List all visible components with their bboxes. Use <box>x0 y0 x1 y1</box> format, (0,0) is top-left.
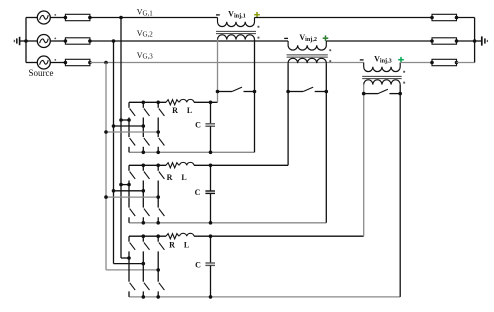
wire rail to transformer 1 <box>194 101 218 103</box>
load box 3 <box>432 59 457 65</box>
switch leg 1 of VSC1 <box>128 102 130 108</box>
wire phase 2 to load <box>326 40 432 42</box>
wire rail to transformer 2 <box>194 164 288 166</box>
wire T3 primary left lead <box>363 85 365 237</box>
switch leg 3 of VSC2 <box>157 165 159 171</box>
transformer T3 primary winding <box>364 80 401 85</box>
wire source 2 to impedance <box>50 40 65 42</box>
switch leg 3 of VSC3 <box>157 236 159 242</box>
switch leg 3 of VSC1 <box>157 102 159 108</box>
source impedance box Z2 <box>65 38 90 44</box>
transformer T3 secondary winding <box>364 63 401 72</box>
wire rail to transformer 3 <box>194 235 364 237</box>
polarity dot T2 secondary <box>329 49 331 51</box>
node N common <box>25 18 27 63</box>
wire bus B (phase2 drop) <box>113 41 115 264</box>
wire bus C (phase3 drop) <box>105 63 107 270</box>
wire source 1 to impedance <box>50 17 65 19</box>
node tap phase3 <box>104 61 108 65</box>
wire midpoint tap leg3 VSC1 <box>106 131 158 133</box>
label minus T2 <box>284 37 288 39</box>
AC source Vs3 <box>26 62 37 64</box>
label plus T1 <box>254 14 260 16</box>
transformer T2 secondary winding <box>288 41 326 50</box>
AC source Vs2 <box>26 40 37 42</box>
svg-text:VG,2: VG,2 <box>137 29 154 39</box>
resistor R (VSC2 filter) <box>166 163 179 168</box>
wire load 3 to right bus <box>457 62 475 64</box>
capacitor C (VSC2) <box>210 165 212 191</box>
load box 2 <box>432 38 457 44</box>
inductor L (VSC3 filter) <box>180 233 195 236</box>
switch leg 1 of VSC3 <box>128 236 130 242</box>
switch leg 2 of VSC3 <box>142 236 144 242</box>
switch leg 1 of VSC2 <box>128 165 130 171</box>
switch leg 2 of VSC2 <box>142 165 144 171</box>
label plus T3 <box>398 59 404 61</box>
wire phase 3 to load <box>400 62 432 64</box>
polarity dot T3 primary <box>403 82 405 84</box>
svg-text:R: R <box>169 241 175 250</box>
capacitor C (VSC1) <box>210 102 212 124</box>
inductor L (VSC1 filter) <box>180 99 195 102</box>
svg-text:VG,1: VG,1 <box>137 7 154 17</box>
transformer T3 core <box>362 75 402 77</box>
converter VSC3 top rail <box>129 235 166 237</box>
ground right <box>475 40 482 42</box>
source impedance box Z1 <box>65 14 90 20</box>
node right bus <box>474 18 476 63</box>
wire T1 primary left lead <box>217 40 219 103</box>
polarity dot T1 secondary <box>258 26 260 28</box>
converter VSC1 bottom rail <box>129 151 255 153</box>
label plus T2 <box>323 37 329 39</box>
resistor R (VSC3 filter) <box>166 234 179 239</box>
wire T3 primary right lead <box>399 85 401 297</box>
svg-text:Source: Source <box>29 68 54 78</box>
label minus T3 <box>360 59 364 61</box>
converter VSC2 bottom rail <box>129 222 326 224</box>
node tap phase1 <box>119 16 123 20</box>
capacitor C (VSC3) <box>210 236 212 263</box>
svg-text:L: L <box>181 173 186 182</box>
polarity dot T1 primary <box>258 37 260 39</box>
wire midpoint tap leg1 VSC2 <box>121 184 129 186</box>
bypass switch S1 <box>218 91 233 93</box>
polarity dot T2 primary <box>329 60 331 62</box>
wire midpoint tap leg2 VSC1 <box>114 125 144 127</box>
load box 1 <box>432 14 457 20</box>
transformer T2 primary winding <box>288 58 326 63</box>
converter VSC2 top rail <box>129 164 166 166</box>
transformer T1 primary winding <box>218 35 255 40</box>
bypass switch S3 <box>364 93 378 95</box>
wire midpoint tap leg3 VSC2 <box>106 196 158 198</box>
polarity dot T3 secondary <box>403 71 405 73</box>
ground <box>20 40 26 42</box>
svg-text:R: R <box>172 106 178 115</box>
converter VSC1 top rail <box>129 101 166 103</box>
svg-text:R: R <box>167 173 173 182</box>
svg-text:C: C <box>195 260 201 269</box>
source impedance box Z3 <box>65 59 90 65</box>
wire load 2 to right bus <box>457 40 475 42</box>
wire T2 primary left lead <box>287 63 289 165</box>
wire midpoint tap leg2 VSC2 <box>114 190 144 192</box>
transformer T1 core <box>216 30 256 32</box>
switch leg 2 of VSC1 <box>142 102 144 108</box>
svg-text:C: C <box>195 188 201 197</box>
converter VSC3 bottom rail <box>129 296 400 298</box>
wire VG,3 feeder <box>90 62 364 64</box>
svg-text:C: C <box>195 120 201 129</box>
wire bus A (phase1 drop) <box>120 18 122 259</box>
AC source Vs1 <box>26 17 37 19</box>
wire T2 primary right lead <box>325 63 327 223</box>
wire midpoint tap leg1 VSC1 <box>121 119 129 121</box>
wire phase 1 to load <box>255 17 433 19</box>
node tap phase2 <box>112 39 116 43</box>
transformer T2 core <box>287 54 328 56</box>
wire VG,1 feeder <box>90 17 218 19</box>
svg-text:VG,3: VG,3 <box>137 51 154 61</box>
wire VG,2 feeder <box>90 40 288 42</box>
wire T1 primary right lead <box>254 40 256 153</box>
resistor R (VSC1 filter) <box>166 100 179 105</box>
bypass switch S2 <box>288 91 303 93</box>
svg-text:L: L <box>187 106 192 115</box>
label minus T1 <box>216 14 220 16</box>
transformer T1 secondary winding <box>218 18 255 27</box>
inductor L (VSC2 filter) <box>180 162 195 165</box>
svg-text:L: L <box>184 241 189 250</box>
wire load 1 to right bus <box>457 17 475 19</box>
wire source 3 to impedance <box>50 62 65 64</box>
